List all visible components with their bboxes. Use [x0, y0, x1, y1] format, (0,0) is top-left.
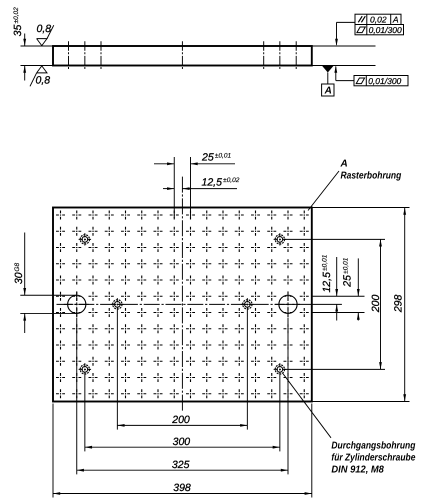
leader from top frame to top surface: [335, 22, 355, 46]
surface finish symbol 0.8 bottom: [30, 66, 50, 87]
svg-text:200: 200: [171, 414, 190, 426]
middle row horizontal centerline: [57, 303, 312, 305]
grid of Rasterbohrungen 16x12 cross marks: [56, 215, 309, 394]
svg-text:Rasterbohrung: Rasterbohrung: [341, 171, 402, 182]
svg-text:0,01/300: 0,01/300: [369, 25, 402, 35]
leader from bottom frame to bottom surface: [334, 66, 354, 81]
svg-text:0,8: 0,8: [36, 75, 51, 87]
dimension 25 plus/minus 0.01 right: [342, 257, 360, 320]
through holes for DIN 912 M8 screws: [79, 233, 286, 375]
plan view plate outline: [53, 208, 312, 402]
svg-text:DIN 912, M8: DIN 912, M8: [331, 464, 384, 475]
svg-text:A: A: [324, 86, 332, 97]
dimension 12.5 plus/minus 0.01 right: [321, 254, 338, 320]
extension lines bottom dims: [53, 311, 312, 498]
svg-text:200: 200: [370, 294, 382, 313]
dimension 325 bottom: [77, 459, 288, 472]
locating bores 30G8: [64, 291, 301, 317]
dimension 298: [393, 208, 407, 402]
svg-text:325: 325: [172, 459, 190, 471]
svg-text:298: 298: [393, 294, 405, 313]
extension lines for top 25 and 12.5 dimensions: [174, 157, 190, 218]
extension lines right 200: [285, 239, 385, 369]
side view plate outline: [53, 46, 312, 66]
dimension 200 bottom: [117, 414, 247, 427]
extension lines right 12.5 / 25: [312, 296, 365, 312]
svg-text:0,01/300: 0,01/300: [368, 76, 401, 86]
svg-text:398: 398: [173, 482, 191, 494]
dimension 12.5 plus/minus 0.02 top: [163, 176, 240, 190]
bottom surface extension line right: [312, 65, 376, 67]
extension lines right 298: [312, 208, 410, 402]
top surface extension line right: [312, 45, 376, 47]
dimension 35 plus/minus 0.02: [12, 7, 26, 81]
dimension 25 plus/minus 0.01 top: [154, 152, 235, 166]
svg-text:0,8: 0,8: [37, 23, 52, 35]
dimension 398 bottom: [53, 482, 312, 495]
plate vertical centerline: [181, 177, 183, 412]
GD&T frame parallelism 0.02 A / flatness 0.01-300: [355, 14, 404, 35]
leader Durchgangsbohrung DIN 912 M8: [283, 373, 416, 475]
datum A symbol: [322, 66, 334, 97]
dimension 200 right: [370, 239, 382, 369]
svg-text:0,02: 0,02: [370, 15, 387, 25]
svg-text:A: A: [340, 158, 348, 169]
dimension 300 bottom: [85, 436, 280, 449]
leader A Rasterbohrung: [308, 158, 401, 210]
extension lines tangent to bore for 30G8: [20, 295, 77, 313]
svg-text:300: 300: [173, 436, 191, 448]
svg-text:Durchgangsbohrung: Durchgangsbohrung: [331, 440, 415, 451]
GD&T frame flatness 0.01-300 bottom: [354, 76, 408, 86]
svg-text:A: A: [392, 15, 399, 25]
surface finish symbol 0.8 top: [37, 23, 54, 46]
dimension 30G8: [13, 233, 26, 334]
side view hole centerlines: [69, 41, 297, 70]
extension lines for 35 dimension: [21, 46, 54, 66]
svg-text:für Zylinderschraube: für Zylinderschraube: [331, 452, 415, 463]
